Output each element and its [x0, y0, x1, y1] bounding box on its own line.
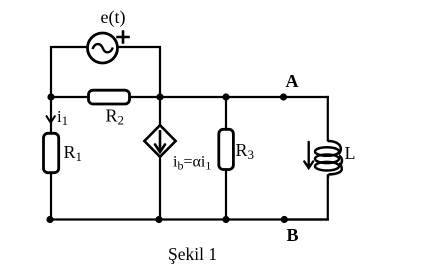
resistor R3	[219, 129, 254, 169]
wire top rail right	[130, 96, 328, 98]
node top-middle	[156, 93, 163, 100]
svg-text:B: B	[287, 225, 299, 245]
wire R3 branch upper	[225, 97, 227, 130]
wire left rail upper	[50, 97, 52, 133]
svg-text:A: A	[286, 71, 299, 91]
plus sign	[118, 32, 129, 43]
resistor R1	[44, 133, 83, 172]
node top-left	[47, 93, 54, 100]
svg-text:Şekil 1: Şekil 1	[168, 244, 217, 264]
wire right rail lower	[284, 178, 328, 220]
node B	[281, 216, 299, 245]
wire right source loop	[118, 47, 160, 97]
svg-text:i1: i1	[57, 107, 68, 128]
svg-text:L: L	[345, 143, 356, 163]
current arrow inductor	[304, 142, 313, 168]
wire middle branch upper	[159, 97, 161, 126]
wire bottom rail	[50, 218, 328, 220]
inductor L	[315, 141, 356, 178]
wire left source loop	[51, 47, 87, 97]
svg-text:R2: R2	[106, 106, 125, 128]
svg-text:ib=αi1: ib=αi1	[173, 154, 211, 173]
current arrow i1	[47, 107, 68, 128]
node bottom-middle	[155, 216, 162, 223]
svg-text:R1: R1	[64, 142, 83, 164]
wire top rail left	[51, 96, 88, 98]
wire R3 branch lower	[225, 170, 227, 220]
wire left rail lower	[50, 173, 51, 220]
resistor R2	[89, 90, 130, 127]
dependent current source ib=ai1	[144, 125, 211, 172]
wire middle branch lower	[159, 157, 161, 220]
svg-text:e(t): e(t)	[101, 7, 126, 28]
wire right rail upper	[327, 97, 329, 141]
voltage source U1	[88, 33, 118, 63]
node bottom R3	[222, 216, 229, 223]
node A	[280, 71, 299, 101]
node bottom-left	[46, 216, 53, 223]
svg-text:R3: R3	[236, 140, 255, 162]
node top R3	[222, 93, 229, 100]
